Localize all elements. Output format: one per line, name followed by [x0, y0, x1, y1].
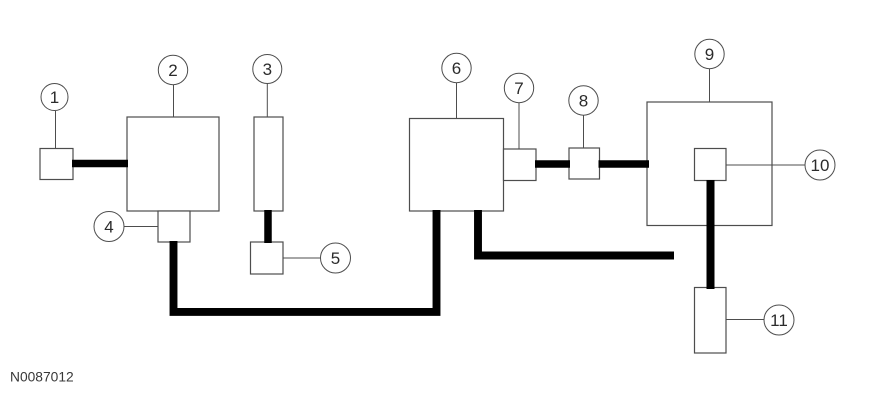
component box 5	[251, 242, 284, 274]
hose box1 to box2	[72, 160, 128, 168]
component box 4	[158, 211, 190, 242]
hose box4 down across and up to box6	[174, 210, 437, 312]
component box 3	[254, 117, 283, 211]
callout circle 4	[94, 212, 124, 242]
callout circle 8	[569, 86, 598, 115]
leader line circle6	[456, 83, 458, 119]
svg-text:11: 11	[770, 311, 788, 330]
svg-text:5: 5	[331, 249, 340, 268]
callout circle 10	[805, 150, 835, 180]
leader line circle9	[709, 69, 711, 103]
svg-text:6: 6	[452, 59, 461, 78]
leader line circle7	[518, 103, 520, 150]
leader line circle3	[266, 84, 268, 118]
callout circle 3	[253, 55, 282, 84]
leader line circle8	[583, 116, 585, 149]
callout circle 5	[321, 243, 351, 273]
svg-text:2: 2	[168, 61, 177, 80]
leader line circle4	[124, 226, 159, 228]
component box 8	[569, 148, 600, 179]
svg-text:8: 8	[579, 92, 588, 111]
leader line circle1	[55, 111, 57, 149]
component box 2	[127, 117, 219, 211]
callout circle 2	[158, 55, 187, 84]
svg-text:4: 4	[104, 218, 113, 237]
hose box10 down to box11	[707, 180, 715, 289]
callout circle 9	[695, 39, 724, 68]
component box 11	[695, 288, 727, 354]
svg-text:10: 10	[811, 156, 830, 175]
component box 6	[410, 119, 504, 212]
component box 9	[647, 102, 772, 226]
callout circle 11	[764, 305, 794, 335]
svg-text:1: 1	[50, 88, 59, 107]
svg-text:7: 7	[514, 79, 523, 98]
hose box6 down and right	[478, 210, 674, 256]
svg-text:9: 9	[705, 45, 714, 64]
component box 1	[40, 149, 73, 180]
leader line circle11	[726, 319, 765, 321]
hose box7 to box8	[535, 160, 570, 168]
callout circle 1	[41, 84, 68, 111]
component box 7	[504, 149, 537, 181]
svg-text:3: 3	[263, 60, 272, 79]
hose box8 to box9	[599, 160, 650, 168]
svg-text:N0087012: N0087012	[10, 370, 74, 385]
leader line circle5	[283, 257, 321, 259]
leader line circle2	[173, 85, 175, 118]
callout circle 7	[504, 73, 533, 102]
hose box3 to box5	[264, 210, 272, 243]
component box 10	[695, 149, 727, 181]
leader line circle10	[726, 164, 806, 166]
callout circle 6	[442, 53, 471, 82]
